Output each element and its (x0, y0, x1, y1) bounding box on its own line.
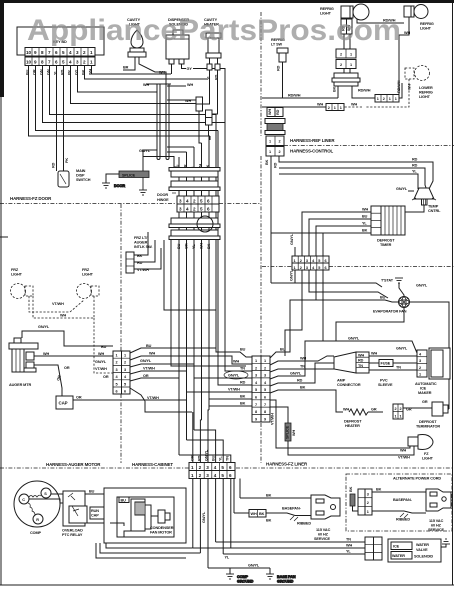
twin 6-pin connector labels left (95, 345, 109, 379)
svg-text:WH: WH (159, 71, 165, 75)
mesh wire WH to twin9 (202, 356, 253, 364)
svg-text:60 HZ: 60 HZ (318, 533, 329, 537)
wire VT/WH twin9 down (270, 400, 398, 448)
svg-text:2: 2 (400, 407, 402, 411)
svg-text:2: 2 (124, 361, 126, 365)
svg-text:RD/WH: RD/WH (358, 89, 371, 93)
svg-text:YL: YL (225, 556, 230, 560)
svg-text:1: 1 (191, 473, 194, 478)
svg-text:5: 5 (62, 50, 65, 55)
wire TN valve (216, 538, 365, 543)
wire GN/YL grounds (208, 564, 270, 575)
svg-text:WH: WH (200, 243, 204, 249)
refrig light 1 leads (341, 19, 352, 49)
svg-text:GN/YL: GN/YL (290, 269, 294, 281)
wire RD control (274, 156, 434, 189)
svg-text:WATER: WATER (416, 543, 429, 547)
svg-text:2: 2 (193, 207, 196, 212)
svg-text:5: 5 (116, 382, 118, 386)
svg-text:CAP: CAP (91, 514, 99, 518)
wire to terminator (403, 407, 432, 409)
five wire bundle lower labels (177, 243, 211, 249)
refrig lt sw (271, 38, 288, 62)
condenser BU tag (119, 497, 129, 503)
svg-text:8: 8 (255, 410, 257, 414)
svg-text:1: 1 (340, 106, 342, 110)
page frame left bar (0, 0, 4, 585)
svg-text:PK: PK (65, 158, 69, 163)
svg-text:3: 3 (306, 259, 308, 263)
svg-text:BK: BK (207, 243, 211, 249)
svg-text:BU: BU (101, 345, 107, 349)
wire WH dispenser (159, 64, 172, 75)
svg-text:2: 2 (367, 501, 369, 505)
svg-text:2: 2 (395, 407, 397, 411)
door hinge label (157, 193, 176, 202)
svg-text:WATER: WATER (392, 554, 405, 558)
auger motor GN/YL label (22, 325, 113, 346)
wire WH vertical (199, 111, 202, 420)
svg-text:COMP: COMP (30, 531, 42, 535)
wire staircase pin3 (78, 66, 158, 93)
svg-text:RD: RD (240, 381, 246, 385)
svg-text:RD: RD (412, 158, 418, 162)
svg-text:8: 8 (264, 410, 266, 414)
condenser inner box (117, 497, 174, 537)
svg-text:5: 5 (200, 207, 203, 212)
connector quad refrig (375, 95, 399, 103)
wire BK power top (240, 479, 311, 499)
door hinge connector (177, 196, 219, 212)
water valve solenoid box (388, 539, 441, 562)
twin 9-pin connector (252, 356, 270, 422)
svg-text:OR: OR (191, 455, 195, 461)
wire BU relay out (85, 490, 117, 498)
svg-text:9: 9 (264, 417, 266, 421)
svg-text:1: 1 (334, 106, 336, 110)
svg-text:2: 2 (419, 366, 421, 370)
wire YL control (279, 170, 418, 190)
wire BK lamp down (333, 86, 339, 98)
svg-text:FRZ LT/: FRZ LT/ (134, 236, 148, 240)
svg-text:6: 6 (124, 390, 126, 394)
svg-text:BU: BU (89, 490, 95, 494)
wire TN ice (369, 366, 417, 371)
fuse pvc sleeve (369, 360, 417, 388)
svg-text:VT/WH: VT/WH (52, 302, 64, 306)
svg-text:BASE PAN: BASE PAN (277, 575, 296, 579)
svg-text:GN/YL: GN/YL (248, 564, 260, 568)
wire TN twin9 right (270, 365, 334, 373)
svg-text:3: 3 (206, 465, 209, 470)
svg-text:6: 6 (229, 473, 232, 478)
svg-text:2: 2 (255, 366, 257, 370)
svg-text:GN/YL: GN/YL (38, 325, 50, 329)
svg-text:RD: RD (297, 379, 303, 383)
wire right riser 3 (217, 131, 219, 341)
svg-text:VT/WH: VT/WH (143, 367, 155, 371)
basepan label alt (393, 498, 413, 502)
harness-fz liner label (266, 462, 308, 467)
harness boundary vertical cabinet (120, 204, 122, 463)
wire RD/WH main (262, 94, 338, 99)
svg-text:BR: BR (123, 66, 129, 70)
svg-text:5: 5 (221, 473, 224, 478)
svg-text:MAIN: MAIN (76, 169, 86, 173)
svg-text:8: 8 (41, 50, 44, 55)
svg-text:WH: WH (143, 83, 149, 87)
svg-text:PVC: PVC (380, 379, 388, 383)
wire WH auger (34, 352, 113, 356)
wire PK to main disp switch (64, 66, 70, 172)
svg-text:RD/WH: RD/WH (397, 80, 401, 93)
svg-text:1: 1 (419, 373, 421, 377)
svg-text:3: 3 (124, 368, 126, 372)
cavity heater (204, 18, 221, 80)
svg-text:WH: WH (404, 31, 410, 35)
svg-text:GN/YL: GN/YL (290, 372, 302, 376)
svg-text:YL: YL (192, 244, 196, 249)
wire BU below 6pin (309, 270, 388, 298)
fold mark left edge (0, 236, 8, 238)
svg-text:TN: TN (226, 456, 230, 461)
svg-text:GY: GY (187, 67, 193, 71)
cavity light (127, 18, 146, 57)
svg-text:GN/YL: GN/YL (416, 284, 428, 288)
wire GN/YL temp (396, 187, 414, 191)
svg-text:115 VAC: 115 VAC (429, 519, 444, 523)
svg-text:SLEEVE: SLEEVE (378, 383, 393, 387)
svg-text:6: 6 (325, 259, 327, 263)
condenser fan motor (131, 499, 174, 535)
svg-text:RD: RD (198, 455, 202, 461)
wire GY dispenser (182, 64, 226, 86)
run capacitor auger (56, 396, 73, 409)
connector P1 row 2 pins 10-1 (25, 57, 95, 66)
svg-text:5: 5 (264, 388, 266, 392)
svg-text:9: 9 (34, 50, 37, 55)
wire right riser 2 (224, 86, 226, 330)
wire BK vertical (208, 136, 210, 410)
svg-text:1: 1 (90, 50, 93, 55)
wire RD2 control (279, 164, 427, 190)
svg-text:WH: WH (268, 109, 272, 115)
svg-text:5: 5 (255, 388, 257, 392)
svg-text:2: 2 (328, 106, 330, 110)
valve connector (365, 537, 382, 560)
temp control (405, 188, 441, 213)
svg-text:4: 4 (214, 465, 217, 470)
svg-text:TN: TN (240, 367, 245, 371)
wire OR cab (130, 378, 179, 381)
ground door left (102, 183, 125, 188)
mesh wire BU to twin9 (179, 348, 252, 358)
svg-text:4: 4 (186, 207, 189, 212)
refrig light 1 (320, 4, 369, 20)
svg-text:1: 1 (191, 465, 194, 470)
svg-text:DEFROST: DEFROST (344, 420, 362, 424)
svg-text:OR: OR (76, 396, 82, 400)
svg-text:TN: TN (396, 366, 401, 370)
power cord plug main (311, 495, 340, 541)
wire YL vertical (167, 147, 194, 430)
svg-text:LIGHT: LIGHT (11, 273, 23, 277)
svg-text:1: 1 (124, 354, 126, 358)
freezer light interlock switch label (134, 236, 152, 249)
svg-text:3: 3 (179, 207, 182, 212)
wire VT/WH splice down (270, 407, 410, 460)
svg-text:2: 2 (199, 465, 202, 470)
harness-ref liner label (290, 138, 335, 143)
wire fz light leads (398, 446, 414, 455)
svg-text:6: 6 (116, 390, 118, 394)
wire below 6pin riser to twin9 (285, 270, 323, 356)
svg-text:6: 6 (229, 465, 232, 470)
harness-fz door label (10, 196, 52, 201)
svg-text:VT/WH: VT/WH (271, 413, 275, 425)
svg-text:2: 2 (300, 266, 302, 270)
svg-text:BK: BK (265, 159, 269, 165)
svg-text:C: C (22, 498, 25, 502)
svg-text:OR: OR (103, 375, 109, 379)
svg-text:GN/YL: GN/YL (140, 359, 152, 363)
condenser outer box (104, 488, 186, 543)
svg-text:COMP: COMP (237, 575, 249, 579)
svg-text:WH: WH (346, 544, 352, 548)
wire WH to bundle (143, 83, 193, 87)
compressor (14, 481, 60, 535)
svg-text:REFRIG: REFRIG (420, 22, 434, 26)
svg-text:GROUND: GROUND (237, 580, 254, 584)
svg-text:BK: BK (349, 486, 353, 492)
svg-text:VALVE: VALVE (416, 548, 428, 552)
svg-text:TEMP: TEMP (428, 205, 439, 209)
svg-text:WH: WH (233, 360, 239, 364)
svg-text:T'STAT: T'STAT (381, 279, 394, 283)
svg-text:GN/YL: GN/YL (202, 511, 206, 523)
mesh wire BK2 to twin9 (209, 402, 252, 407)
svg-text:10: 10 (26, 60, 32, 65)
svg-text:OR: OR (143, 374, 149, 378)
mesh wire BK to twin9 (209, 395, 252, 400)
harness-fz door boundary (0, 203, 261, 205)
page frame bottom edge (0, 584, 454, 586)
wire WH ice (369, 352, 417, 357)
svg-text:ALTERNATE POWER CORD: ALTERNATE POWER CORD (393, 477, 441, 481)
svg-text:2: 2 (383, 97, 385, 101)
svg-text:6: 6 (207, 207, 210, 212)
frz light right (77, 268, 100, 299)
twin 6-pin connector (113, 351, 130, 394)
wire mesh extra 2 (164, 240, 216, 310)
wire WH twin9 right (270, 356, 334, 365)
svg-text:HINGE: HINGE (157, 198, 169, 202)
svg-text:HARNESS-FZ DOOR: HARNESS-FZ DOOR (10, 196, 52, 201)
wire staircase pin4 (71, 66, 197, 104)
svg-text:TN: TN (346, 538, 351, 542)
wire WH dashed (33, 296, 94, 318)
evaporator fan (373, 297, 410, 314)
svg-text:RIBBED: RIBBED (297, 522, 311, 526)
svg-text:9: 9 (34, 60, 37, 65)
wire RD interlock (134, 240, 155, 262)
svg-text:HEATER: HEATER (345, 424, 360, 428)
svg-text:GN/YL: GN/YL (205, 449, 209, 461)
svg-text:TERMINATOR: TERMINATOR (416, 425, 440, 429)
wire bundle sleeve (155, 84, 171, 160)
svg-text:SOLENOID: SOLENOID (414, 555, 433, 559)
wire lower light dashed (344, 79, 409, 107)
wire right riser 1 (215, 115, 217, 353)
svg-text:BK: BK (240, 395, 246, 399)
svg-text:3: 3 (264, 374, 266, 378)
wire RD to main disp switch (52, 66, 57, 172)
svg-text:BU: BU (177, 243, 181, 249)
svg-text:6: 6 (325, 266, 327, 270)
svg-text:FRZ: FRZ (11, 268, 19, 272)
svg-text:WH: WH (408, 84, 412, 90)
twin 2-pin connector ref liner (266, 136, 284, 156)
svg-text:SPLICE: SPLICE (286, 425, 290, 439)
svg-text:7: 7 (255, 403, 257, 407)
wire VT/WH cab (130, 371, 187, 374)
wire WH cab (130, 356, 202, 360)
svg-text:OVERLOAD: OVERLOAD (62, 529, 83, 533)
svg-text:CONDENSER: CONDENSER (150, 526, 174, 530)
harness fz liner boundary right (262, 266, 454, 268)
svg-text:RUN: RUN (91, 509, 99, 513)
svg-text:WH: WH (187, 83, 193, 87)
door hinge grommet upper (169, 168, 220, 191)
svg-text:RD: RD (276, 109, 280, 115)
svg-text:RD: RD (412, 164, 418, 168)
svg-text:4: 4 (69, 50, 72, 55)
svg-text:MAKER: MAKER (418, 391, 432, 395)
svg-text:8: 8 (41, 60, 44, 65)
wire staircase pin9 (36, 66, 219, 131)
svg-text:1: 1 (367, 510, 369, 514)
svg-text:WH: WH (98, 352, 104, 356)
wire WH relay out (85, 509, 115, 528)
svg-text:9: 9 (255, 417, 257, 421)
svg-text:WH: WH (149, 352, 155, 356)
svg-text:5: 5 (62, 60, 65, 65)
svg-text:1: 1 (255, 359, 257, 363)
wire VT/WH lower cab (130, 388, 192, 412)
svg-text:R: R (36, 518, 39, 522)
svg-text:1: 1 (350, 63, 352, 67)
bottom 6-pin connector (189, 463, 235, 479)
svg-text:5: 5 (318, 259, 320, 263)
lamp socket connector stack (336, 49, 356, 69)
svg-text:DEFROST: DEFROST (419, 420, 437, 424)
svg-text:2: 2 (279, 150, 281, 154)
svg-text:ICE: ICE (393, 545, 400, 549)
svg-text:GN/YL: GN/YL (228, 374, 240, 378)
svg-text:AppliancePartsPros.com: AppliancePartsPros.com (27, 14, 401, 47)
svg-text:3: 3 (76, 50, 79, 55)
svg-text:WH: WH (371, 352, 377, 356)
wire WH pin1 (92, 66, 172, 75)
svg-text:4: 4 (214, 473, 217, 478)
wire GN/YL twin9 right (270, 337, 417, 380)
svg-text:2: 2 (340, 63, 342, 67)
svg-text:WH: WH (362, 208, 368, 212)
svg-text:INTLK SW.: INTLK SW. (134, 245, 152, 249)
mesh wire RD to twin9 (218, 340, 252, 385)
svg-text:GN/YL: GN/YL (290, 233, 294, 245)
wire WH valve (193, 544, 365, 549)
wire alt BK (372, 488, 426, 493)
svg-text:BK: BK (259, 512, 265, 516)
svg-text:RD: RD (358, 359, 364, 363)
svg-text:BASEPAN-: BASEPAN- (282, 507, 302, 511)
svg-text:OR: OR (64, 366, 70, 370)
svg-text:HARNESS-CONTROL: HARNESS-CONTROL (290, 149, 334, 154)
mesh wire GN/YL to twin9 (194, 364, 252, 379)
wire BU cab (130, 348, 179, 353)
door hinge grommet lower (169, 218, 220, 240)
wire WH timer (302, 208, 371, 257)
svg-text:GR: GR (371, 408, 377, 412)
svg-text:AMP: AMP (337, 379, 346, 383)
svg-text:WH: WH (251, 512, 257, 516)
svg-text:VT/WH: VT/WH (147, 396, 159, 400)
svg-text:REFRIG: REFRIG (320, 7, 334, 11)
power cord plug alt (426, 489, 451, 532)
ribbed label alt (396, 513, 410, 522)
dispenser solenoid (166, 18, 189, 64)
fz light liner (400, 435, 434, 461)
wire comp to relay S (51, 493, 63, 495)
wire nested loop 2 (100, 543, 200, 553)
wire staircase pin8 (43, 66, 226, 123)
svg-text:LIGHT: LIGHT (419, 95, 431, 99)
svg-text:2: 2 (264, 366, 266, 370)
svg-text:3: 3 (306, 266, 308, 270)
page frame right edge (452, 3, 454, 585)
connector WH refrig (326, 104, 344, 111)
alt cord connector (349, 486, 372, 515)
svg-text:6: 6 (264, 396, 266, 400)
tstat (381, 279, 394, 283)
wire dashed frz to connector (94, 296, 113, 373)
basepan label main (282, 507, 302, 511)
svg-text:CONNECTOR: CONNECTOR (337, 383, 361, 387)
wire BK timer (271, 229, 371, 257)
svg-text:BU: BU (121, 499, 127, 503)
harness-auger motor label (46, 462, 101, 467)
wire to lower light (397, 80, 402, 98)
svg-text:115 VAC: 115 VAC (316, 528, 331, 532)
svg-text:HARNESS-REF LINER: HARNESS-REF LINER (290, 138, 335, 143)
wire staircase pin10 (29, 66, 211, 137)
svg-text:1: 1 (294, 266, 296, 270)
wire YL timer (316, 222, 371, 257)
svg-text:1: 1 (400, 414, 402, 418)
svg-text:GN/YL: GN/YL (396, 347, 408, 351)
mesh wire OR down (178, 378, 180, 455)
svg-text:4: 4 (186, 199, 189, 204)
svg-text:HARNESS-FZ LINER: HARNESS-FZ LINER (266, 462, 308, 467)
svg-text:BK: BK (240, 402, 246, 406)
svg-text:1: 1 (389, 97, 391, 101)
main dispenser switch (58, 169, 91, 187)
svg-text:WH: WH (317, 103, 323, 107)
svg-text:2: 2 (199, 473, 202, 478)
wire nested loop 1 (106, 543, 193, 548)
wire GN/YL splice drop (139, 149, 157, 171)
